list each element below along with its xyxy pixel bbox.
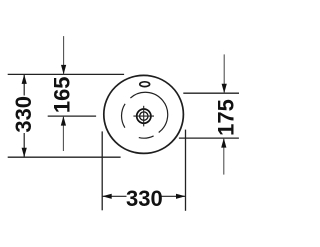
svg-text:330: 330	[126, 186, 163, 211]
basin outer circle	[104, 75, 184, 153]
dimension 330 left: bottom arrow	[22, 148, 27, 158]
dimension 330 left: line	[23, 74, 25, 157]
drain outer circle	[137, 109, 151, 123]
bowl inner broken circle: bottom arc	[139, 136, 154, 138]
svg-text:330: 330	[11, 96, 36, 133]
svg-text:165: 165	[50, 76, 75, 113]
dimension 330 left: text mask	[13, 96, 34, 134]
drain crosshair horizontal	[133, 115, 154, 117]
extension line bottom-right	[179, 137, 239, 139]
drain crosshair vertical	[143, 106, 145, 127]
dimension 165: bottom arrow (outside, pointing up)	[62, 116, 64, 151]
dimension 175: bottom arrow (outside, pointing up)	[223, 138, 225, 175]
dimension 175: top arrow (outside, pointing down)	[223, 54, 225, 93]
dimension 330 left: top arrow	[22, 74, 27, 84]
bowl inner broken circle: left arc	[122, 104, 126, 128]
extension line vertical left	[101, 131, 103, 210]
drain inner circle	[140, 112, 148, 120]
overflow hole ellipse	[140, 82, 150, 87]
svg-text:175: 175	[214, 99, 239, 136]
dimension 330 bottom: text mask	[127, 188, 162, 207]
dimension 165: top arrow (outside, pointing down)	[63, 36, 65, 74]
dimension 330 bottom: left arrow	[102, 194, 112, 199]
extension line vertical right	[185, 130, 187, 211]
extension line bottom-left	[8, 156, 121, 158]
extension line center-left (drain axis)	[48, 115, 96, 117]
extension line top-left	[8, 73, 124, 75]
bowl inner broken circle: big arc	[130, 92, 167, 132]
dimension 330 bottom: line	[102, 195, 185, 197]
extension line top-right	[183, 92, 239, 94]
dimension 330 bottom: right arrow	[176, 194, 186, 199]
